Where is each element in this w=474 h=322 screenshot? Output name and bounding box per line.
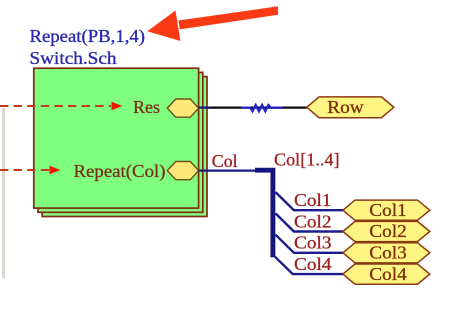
svg-text:Col3: Col3 [294, 233, 332, 253]
svg-text:Col1: Col1 [294, 190, 332, 210]
bus entry wire Col4 [274, 256, 343, 274]
svg-text:Col[1..4]: Col[1..4] [274, 150, 340, 170]
sheet entry Res (hexagon) [133, 97, 199, 117]
bus entry wire Col1 [276, 192, 344, 210]
port Col1 [343, 200, 430, 220]
svg-text:Col: Col [212, 151, 238, 171]
svg-text:Switch.Sch: Switch.Sch [30, 48, 117, 68]
port Col2 [343, 221, 430, 241]
sheet symbol stack: middle sheet 2 [38, 72, 203, 212]
wire Col (navy) [199, 170, 256, 172]
svg-text:Col4: Col4 [294, 254, 332, 274]
bus entry wire Col2 [276, 213, 344, 231]
svg-text:Col3: Col3 [369, 243, 407, 263]
svg-text:Repeat(PB,1,4): Repeat(PB,1,4) [30, 26, 146, 47]
red dashed pointer to Res entry [0, 102, 123, 111]
svg-text:Col1: Col1 [369, 200, 407, 220]
wire Res net (navy stub at sheet entry) [199, 106, 210, 108]
bus entry wire Col3 [276, 235, 344, 253]
port Col4 [343, 264, 430, 284]
sheet symbol U1 Switch.Sch (front) [34, 68, 199, 208]
resistor R (blue zigzag) [241, 105, 283, 111]
wire Res net (black segment) [205, 106, 307, 108]
svg-text:Repeat(Col): Repeat(Col) [74, 161, 166, 182]
big red annotation arrow [147, 6, 278, 41]
svg-text:Res: Res [133, 97, 160, 117]
sheet entry Repeat(Col) (hexagon) [74, 161, 199, 182]
red dashed pointer to Repeat(Col) entry [0, 166, 61, 175]
port Col3 [343, 243, 430, 263]
port Row [307, 97, 394, 118]
svg-text:Col4: Col4 [369, 264, 407, 284]
svg-text:Col2: Col2 [369, 221, 407, 241]
left window edge (grey vertical line) [2, 108, 5, 278]
svg-text:Col2: Col2 [294, 211, 332, 231]
sheet symbol stack: back sheet 3 [42, 77, 207, 217]
bus Col[1..4] (thick navy) [255, 170, 273, 257]
svg-text:Row: Row [327, 97, 364, 117]
